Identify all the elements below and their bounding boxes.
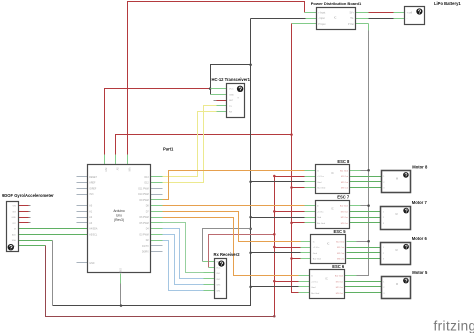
wire ESC5 gnd-out to bus (grey)	[347, 241, 357, 243]
svg-text:GND: GND	[119, 268, 121, 273]
svg-text:D3 PWM: D3 PWM	[139, 234, 148, 236]
svg-text:M: M	[396, 249, 398, 252]
node junction vcc bus ESC8	[273, 175, 276, 178]
svg-text:Power Distribution Board1: Power Distribution Board1	[311, 1, 362, 6]
wire Arduino D4 to Rx CH2 (blue)	[151, 228, 163, 230]
node junction gnd rail / Arduino GND	[120, 304, 123, 307]
battery BT1 LiPo body	[405, 7, 425, 25]
svg-text:ESC 7: ESC 7	[337, 194, 350, 199]
svg-text:+5 Vcc: +5 Vcc	[313, 247, 321, 249]
wire 9DOF pin7 down to gnd rail (grey)	[18, 240, 53, 242]
svg-text:D6 PWM: D6 PWM	[139, 217, 148, 219]
wire PDB 5V+ to LiPo + (red)	[356, 12, 369, 14]
wire GND branch to HC-12 (black)	[211, 65, 251, 95]
svg-text:IC: IC	[331, 208, 334, 211]
speed controller ESC 6 body	[310, 270, 345, 299]
wire Arduino D9 to ESC8 In (orange)	[151, 199, 163, 201]
svg-text:(Rev3): (Rev3)	[114, 218, 124, 222]
svg-text:M2 Out: M2 Out	[341, 181, 349, 184]
svg-text:A4/SDA: A4/SDA	[89, 228, 98, 231]
node junction vcc bus / Rx loop	[273, 233, 276, 236]
wire ESC8 +5Vcc branch (red)	[275, 176, 305, 178]
svg-text:D12: D12	[144, 183, 149, 185]
svg-text:AREF: AREF	[89, 182, 96, 185]
wire 9DOF pin1 dead-end stub (red)	[18, 205, 29, 207]
svg-text:LiPo Battery1: LiPo Battery1	[434, 1, 461, 6]
svg-text:P Out: P Out	[348, 23, 354, 26]
wire Rx GND loop to GND bus (grey)	[203, 229, 251, 262]
power distribution board PDB1 body	[317, 8, 356, 30]
wire +bus branch to ESC7 BatGnd (red)	[292, 222, 305, 224]
node junction GND bus ESC8	[249, 181, 252, 184]
wire ESC m3-out to motor (green) set3	[347, 258, 381, 260]
svg-text:+5 Vcc: +5 Vcc	[317, 176, 325, 178]
svg-text:3V3: 3V3	[12, 211, 15, 213]
wire HC-12 SET stub dead-end (red)	[217, 100, 227, 102]
wire ESC +5Vcc bus vertical (red)	[274, 177, 276, 317]
node junction dark red rail / vcc bus	[273, 315, 276, 318]
svg-text:Bat Gnd: Bat Gnd	[317, 187, 326, 190]
svg-text:GND: GND	[11, 217, 16, 219]
svg-text:5V+: 5V+	[350, 12, 355, 14]
svg-text:M: M	[396, 283, 398, 286]
svg-text:Bat Gnd: Bat Gnd	[335, 275, 344, 278]
svg-text:Bat Gnd: Bat Gnd	[340, 205, 349, 208]
node junction GND bus ESC6	[249, 286, 252, 289]
receiver U4 missing-part icon	[218, 261, 224, 267]
transceiver U2 HC-12 body	[227, 84, 245, 118]
svg-text:RX: RX	[229, 112, 233, 114]
svg-text:D5 PWM: D5 PWM	[139, 223, 148, 225]
svg-text:Bat Gnd: Bat Gnd	[317, 222, 326, 225]
wire 9DOF pin2 dead-end stub (red)	[18, 211, 29, 213]
svg-text:5V-: 5V-	[350, 18, 354, 20]
wire HC-12 VCC stub (green)	[211, 88, 227, 90]
node junction GND bus ESC5	[249, 252, 252, 255]
svg-text:Bat Gnd: Bat Gnd	[340, 169, 349, 172]
motor Motor 6 missing-part icon	[403, 244, 409, 250]
svg-text:ESC 5: ESC 5	[334, 229, 347, 234]
wire ESC m1-out to motor (green) set2	[350, 211, 381, 213]
svg-text:D11 PWM: D11 PWM	[138, 188, 148, 190]
wire ESC5 +5Vcc branch (red)	[275, 247, 301, 249]
svg-text:Rx Receiver2: Rx Receiver2	[214, 252, 241, 257]
node junction +bus ESC7	[290, 222, 293, 225]
svg-text:- Input: - Input	[318, 17, 325, 20]
svg-text:D1/TX: D1/TX	[142, 246, 149, 248]
svg-text:+5 Vcc: +5 Vcc	[311, 281, 319, 283]
svg-text:M3 Out: M3 Out	[341, 222, 349, 225]
wire ESC6 +5Vcc branch (red)	[275, 281, 299, 283]
wire Arduino D8 to ESC7 In (orange)	[151, 205, 163, 207]
svg-text:M2 Out: M2 Out	[336, 286, 344, 289]
wire ESC m2-out to motor (green) set2	[350, 217, 381, 219]
transceiver U2 missing-part icon	[237, 86, 243, 92]
speed controller ESC 5 body	[311, 235, 346, 264]
node junction vcc bus ESC5	[273, 246, 276, 249]
svg-text:M1 Out: M1 Out	[341, 175, 349, 178]
wire Arduino D2 to Rx CH4 (blue)	[151, 240, 163, 242]
wire GND branch ESC5 (black)	[251, 252, 301, 254]
wire ESC7 +5Vcc branch (red)	[275, 211, 305, 213]
wire ESC7 gnd-out to bus (grey)	[350, 205, 361, 207]
svg-text:AD0: AD0	[12, 233, 16, 236]
wire ESC m3-out to motor (green) set2	[350, 222, 381, 224]
svg-text:Arduino: Arduino	[113, 209, 125, 213]
node junction right bus ESC5	[367, 240, 370, 243]
microcontroller U1 Arduino Uno (Rev3) body	[88, 165, 151, 273]
wire 9DOF pin4 dead-end stub (red)	[18, 222, 29, 224]
wire GND bus from PDB -Input (black)	[251, 18, 306, 20]
battery BT1 missing-part icon	[416, 8, 422, 14]
svg-text:+ Input: + Input	[318, 11, 325, 14]
wire ESC m2-out to motor (green) set4	[345, 286, 382, 288]
motor Motor 8 missing-part icon	[403, 172, 409, 178]
speed controller ESC 8 body	[316, 165, 350, 194]
wire GND branch ESC7 (black)	[251, 217, 305, 219]
wire GND branch ESC6 (black)	[251, 286, 299, 288]
wire ESC8 gnd-out to bus (grey)	[350, 170, 361, 172]
wire Arduino D13 to HC-12 TX (yellow)	[151, 176, 163, 178]
svg-text:IC: IC	[327, 243, 330, 246]
wire 9DOF pin3 dead-end stub (red)	[18, 217, 29, 219]
svg-text:+5 Vcc: +5 Vcc	[317, 211, 325, 213]
wire Arduino D6 to ESC6 In (orange)	[151, 217, 163, 219]
svg-text:M1 Out: M1 Out	[341, 210, 349, 213]
svg-text:Motor 5: Motor 5	[412, 270, 428, 275]
wire Arduino D3 to Rx CH3 (blue)	[151, 234, 163, 236]
svg-text:M: M	[396, 213, 398, 216]
svg-text:D9 PWM: D9 PWM	[139, 200, 148, 202]
svg-text:D0/RX: D0/RX	[142, 252, 149, 254]
node junction HC-12 VCC red meets branch	[209, 87, 212, 90]
wire 9DOF SDA to Arduino A4 (green)	[18, 228, 88, 230]
svg-text:3V3: 3V3	[89, 194, 94, 196]
wire Arduino D12 to HC-12 RX (yellow)	[151, 182, 163, 184]
wire PDB 5V- to LiPo - (black)	[356, 18, 369, 20]
svg-text:IC: IC	[334, 17, 337, 20]
svg-text:fritzing: fritzing	[434, 319, 474, 333]
svg-text:M1 Out: M1 Out	[336, 280, 344, 283]
svg-text:P Input: P Input	[318, 23, 326, 26]
svg-text:GND: GND	[89, 263, 94, 265]
svg-text:M3 Out: M3 Out	[336, 292, 344, 295]
node junction GND bus / Rx loop	[249, 227, 252, 230]
svg-text:M2 Out: M2 Out	[337, 252, 345, 255]
wire ESC m2-out to motor (green) set3	[347, 252, 381, 254]
svg-text:IC: IC	[325, 277, 328, 280]
svg-text:Part1: Part1	[163, 147, 174, 152]
motor Motor 8 body	[382, 171, 411, 193]
wire Arduino top pin2 to +bus (red)	[116, 135, 292, 165]
svg-text:Uno: Uno	[116, 213, 122, 217]
wire 9DOF SCL to Arduino A5 (green)	[18, 234, 88, 236]
wire +bus branch to ESC8 BatGnd (red)	[292, 187, 305, 189]
svg-text:9DOF Gyro/Accelerometer: 9DOF Gyro/Accelerometer	[2, 193, 54, 198]
node junction GND bus ESC7	[249, 216, 252, 219]
svg-text:Bat Gnd: Bat Gnd	[313, 258, 322, 261]
svg-text:Motor 7: Motor 7	[412, 200, 428, 205]
wire ESC m1-out to motor (green) set4	[345, 281, 382, 283]
speed controller ESC 7 body	[316, 201, 350, 229]
svg-text:D10 PWM: D10 PWM	[138, 194, 149, 196]
svg-text:VCC: VCC	[229, 89, 234, 91]
svg-text:IC: IC	[331, 172, 334, 175]
motor Motor 7 missing-part icon	[403, 208, 409, 214]
svg-text:Motor 6: Motor 6	[412, 236, 428, 241]
wire Arduino D5 to Rx CH1 (pale green)	[151, 222, 163, 224]
svg-text:+ cell: + cell	[407, 12, 413, 14]
svg-text:Bat Gnd: Bat Gnd	[336, 240, 345, 243]
svg-text:5V: 5V	[115, 168, 117, 171]
sensor U3 9DOF body	[7, 202, 19, 252]
wire Arduino D7 to ESC5 In (orange)	[151, 211, 163, 213]
svg-text:M2 Out: M2 Out	[341, 216, 349, 219]
svg-text:VCC: VCC	[216, 267, 221, 269]
wire Arduino GND bottom to gnd rail (grey)	[120, 284, 122, 306]
motor Motor 6 body	[381, 243, 411, 265]
svg-text:VIN: VIN	[128, 168, 130, 172]
wire Arduino top pin1 to HC-12 VCC node (red)	[105, 89, 211, 165]
wire Arduino-VIN to PDB +Input (red, via top rail)	[128, 2, 305, 165]
svg-text:GND: GND	[229, 94, 234, 96]
node junction +bus / Arduino top pin2	[290, 133, 293, 136]
node junction +bus ESC5	[290, 257, 293, 260]
svg-text:Bat Gnd: Bat Gnd	[311, 292, 320, 295]
svg-text:RESET: RESET	[89, 177, 97, 179]
wire Rx VCC loop to vcc bus (pale red)	[209, 235, 275, 268]
wire +bus branch to ESC5 BatGnd (red)	[292, 258, 301, 260]
power distribution board PDB1 pin stubs	[306, 12, 317, 14]
node junction +bus ESC8	[290, 186, 293, 189]
svg-text:HC-12 Transceiver1: HC-12 Transceiver1	[212, 77, 251, 82]
motor Motor 5 body	[382, 277, 411, 299]
wire ESC m3-out to motor (green) set4	[345, 292, 382, 294]
node junction vcc bus ESC6	[273, 280, 276, 283]
wire PDB P-Input vertical +bus (red)	[292, 23, 317, 25]
wire HC-12 GND stub (green)	[211, 94, 227, 96]
svg-text:ESC 6: ESC 6	[332, 264, 345, 269]
wire 9DOF pin8 to battery- rail (dark red)	[18, 245, 46, 247]
motor Motor 5 missing-part icon	[403, 278, 409, 284]
svg-text:3V3: 3V3	[104, 168, 106, 173]
svg-text:M3 Out: M3 Out	[341, 187, 349, 190]
svg-text:M: M	[396, 177, 398, 180]
wire ESC m3-out to motor (green) set1	[350, 187, 382, 189]
node junction right bus ESC7	[367, 204, 370, 207]
svg-text:Motor 8: Motor 8	[412, 164, 428, 169]
sensor U3 missing-part icon	[8, 244, 14, 250]
wire ESC m2-out to motor (green) set1	[350, 181, 382, 183]
node junction vcc bus ESC7	[273, 210, 276, 213]
motor Motor 7 body	[381, 207, 411, 230]
svg-text:IOREF: IOREF	[89, 188, 97, 190]
wire ESC m1-out to motor (green) set1	[350, 176, 382, 178]
wire GND branch ESC8 (black)	[251, 181, 305, 183]
node junction right bus ESC8	[367, 169, 370, 172]
wire PDB P-Out bus down right side (green/grey)	[356, 23, 369, 25]
svg-text:D13: D13	[144, 177, 149, 179]
wire ESC m1-out to motor (green) set3	[347, 247, 381, 249]
svg-text:M1 Out: M1 Out	[337, 246, 345, 249]
svg-text:A5/SCL: A5/SCL	[89, 233, 98, 236]
svg-text:M3 Out: M3 Out	[337, 258, 345, 261]
svg-text:ESC 8: ESC 8	[337, 159, 350, 164]
node junction GND bus / HC-12 branch	[249, 64, 252, 67]
microcontroller Arduino Uno pin stubs	[77, 176, 88, 178]
receiver U4 Rx body	[215, 259, 227, 299]
svg-text:SET: SET	[229, 100, 234, 102]
